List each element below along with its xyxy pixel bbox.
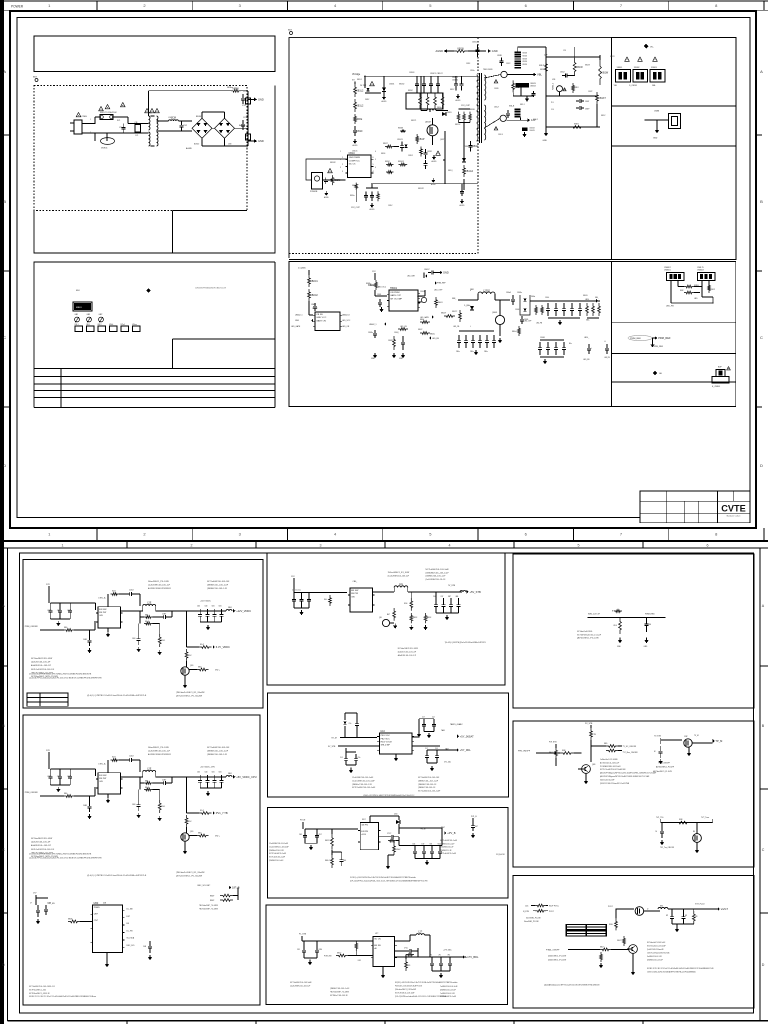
svg-text:PV1 STB: PV1 STB: [549, 742, 557, 744]
svg-text:TV_M: TV_M: [694, 735, 699, 737]
svg-text:NC/F-1aF/41C10L-10/L-1/F: NC/F-1aF/41C10L-10/L-1/F: [31, 669, 55, 671]
svg-text:(AD?dim/SEC1_/F1L-10/W: (AD?dim/SEC1_/F1L-10/W: [577, 637, 599, 640]
svg-text:D0?: D0?: [475, 826, 478, 828]
svg-text:(1a8C/10F-2/10am/4F: (1a8C/10F-2/10am/4F: [647, 949, 664, 951]
svg-text:UB002_1: UB002_1: [295, 315, 303, 317]
svg-text:xRFE: xRFE: [356, 118, 362, 121]
svg-text:KE1?: KE1?: [337, 953, 341, 955]
svg-text:AGND: AGND: [432, 160, 438, 163]
svg-text:L2E: L2E: [147, 768, 152, 771]
svg-text:3: 3: [342, 171, 343, 173]
svg-text:2: 2: [342, 164, 343, 166]
svg-text:KB0: KB0: [64, 793, 67, 795]
svg-text:KB1W: KB1W: [601, 72, 609, 75]
svg-text:KB1X: KB1X: [574, 87, 579, 89]
svg-text:CB01x: CB01x: [368, 332, 373, 334]
svg-text:PVCC: PVCC: [549, 911, 555, 913]
svg-text:2: 2: [340, 159, 341, 161]
svg-text:CB1E: CB1E: [472, 145, 479, 148]
svg-text:(1M/B0C/10L-10/L1F: (1M/B0C/10L-10/L1F: [647, 960, 663, 962]
svg-text:B0T: B0T: [33, 77, 38, 79]
svg-text:(7ML/dim/1a1SEC1_/F1_/10a/4W: (7ML/dim/1a1SEC1_/F1_/10a/4W: [176, 872, 205, 874]
svg-text:KB1Z: KB1Z: [450, 89, 454, 91]
svg-text:KB1W: KB1W: [576, 66, 584, 69]
svg-text:KB1C: KB1C: [408, 90, 414, 92]
svg-text:KB7: KB7: [145, 615, 148, 617]
svg-text:KB0_: KB0_: [595, 297, 599, 299]
svg-text:HD2 VOCE: HD2 VOCE: [381, 742, 393, 744]
svg-text:(7ML/dim/1a1SEC1_/F1_/10a/4W: (7ML/dim/1a1SEC1_/F1_/10a/4W: [176, 692, 205, 694]
svg-text:PSBD: PSBD: [94, 907, 100, 909]
svg-text:TV?_Tasa: TV?_Tasa: [701, 817, 709, 819]
svg-text:NC?dim/SEC1/F1L-1/4W: NC?dim/SEC1/F1L-1/4W: [31, 658, 52, 660]
svg-text:PPB_ON/OFF: PPB_ON/OFF: [518, 751, 531, 753]
svg-text:UD4: UD4: [394, 814, 397, 816]
svg-text:50hm/6SEC1_P1L-10/W: 50hm/6SEC1_P1L-10/W: [148, 747, 169, 749]
svg-text:150hm/6SEC1_/F1_10/W: 150hm/6SEC1_/F1_10/W: [388, 572, 410, 574]
svg-text:NC?B0a/C10L-10/L1F: NC?B0a/C10L-10/L1F: [330, 995, 349, 997]
svg-text:EN PB: EN PB: [361, 831, 368, 833]
svg-text:CB0C: CB0C: [311, 304, 317, 306]
svg-text:FB81: FB81: [470, 289, 474, 291]
svg-text:(1a4C/6SEC10L-10/L-1aF: (1a4C/6SEC10L-10/L-1aF: [148, 584, 171, 586]
svg-text:KD3: KD3: [112, 591, 116, 593]
svg-text:6: 6: [375, 151, 376, 153]
svg-text:B0?: B0?: [387, 614, 390, 616]
svg-text:1/4h7C1/LN4+6e/NC7/DG4h/AGFP/C: 1/4h7C1/LN4+6e/NC7/DG4h/AGFP/C7BE7/N-ant…: [647, 971, 696, 974]
svg-text:AC/F8FC/6SEC4T/4R/S/F1: AC/F8FC/6SEC4T/4R/S/F1: [148, 753, 171, 756]
svg-text:RB1T: RB1T: [383, 143, 389, 145]
svg-text:(1)dC/D/C10L-10/L-1/F: (1)dC/D/C10L-10/L-1/F: [31, 842, 51, 844]
svg-text:NC?1a6/4C10L-1a6F: NC?1a6/4C10L-1a6F: [269, 857, 285, 859]
svg-text:NC?1a4/44C1L-1a6F: NC?1a4/44C1L-1a6F: [440, 996, 456, 998]
svg-text:1N PN: 1N PN: [361, 825, 368, 827]
svg-text:DB1N: DB1N: [447, 112, 452, 114]
svg-text:KF1: KF1: [358, 960, 361, 962]
svg-text:CB12: CB12: [47, 776, 51, 778]
svg-text:XS802: XS802: [634, 67, 640, 69]
svg-text:KD3: KD3: [112, 757, 116, 759]
svg-text:(1M40/B0/C10L--10/L-1a1F: (1M40/B0/C10L--10/L-1a1F: [426, 572, 450, 574]
svg-text:CY02: CY02: [243, 117, 248, 119]
svg-text:M8: M8: [695, 916, 697, 918]
svg-text:B0x: B0x: [569, 343, 572, 345]
svg-text:CB10: CB10: [356, 130, 363, 133]
svg-text:KB12: KB12: [711, 289, 715, 291]
svg-text:QB1M: QB1M: [425, 122, 431, 124]
svg-text:2D0: 2D0: [197, 606, 200, 608]
svg-text:CB1K: CB1K: [497, 55, 503, 57]
svg-text:+12V_VDDC: +12V_VDDC: [200, 601, 212, 603]
svg-text:AGdF/D/L10L--10/L-1/P: AGdF/D/L10L--10/L-1/P: [31, 844, 52, 847]
svg-text:LED_CB: LED_CB: [400, 326, 407, 328]
svg-text:SW2_12V_S?: SW2_12V_S?: [588, 614, 600, 616]
svg-text:CB1U1: CB1U1: [352, 151, 358, 153]
svg-text:BD802: BD802: [194, 144, 199, 146]
svg-text:CB FB: CB FB: [316, 314, 323, 316]
svg-text:GN: GN: [99, 781, 103, 783]
svg-text:CB1U: CB1U: [349, 152, 356, 155]
svg-text:C1a4C/6SEC10L-10/L-1a6F: C1a4C/6SEC10L-10/L-1a6F: [352, 780, 375, 782]
svg-text:?B0?dim/NE?_?0-1/8W: ?B0?dim/NE?_?0-1/8W: [199, 908, 218, 910]
svg-text:(1a4C/6SEC10L-10/L1aF: (1a4C/6SEC10L-10/L1aF: [388, 575, 410, 577]
svg-text:3chm/NE1_P1-1/W: 3chm/NE1_P1-1/W: [524, 921, 539, 923]
svg-text:VD LN: VD LN: [374, 939, 381, 941]
svg-text:(2K7ahm/1SEC1_/F1_/10a/4W: (2K7ahm/1SEC1_/F1_/10a/4W: [176, 696, 202, 698]
svg-text:C1x C1x C1x: C1x C1x C1x: [292, 590, 301, 592]
svg-text:C0D2: C0D2: [129, 590, 134, 592]
svg-text:PV1_B: PV1_B: [471, 816, 477, 818]
svg-text:(1a4C/6SEC10L-10/L-1aF: (1a4C/6SEC10L-10/L-1aF: [148, 750, 171, 752]
svg-text:NC/BC.2C/1C.BC.2C.F1a/C1.1a8%/: NC/BC.2C/1C.BC.2C.F1a/C1.1a8%/4aB/L2a8%/…: [647, 968, 714, 970]
svg-text:5: 5: [375, 159, 376, 161]
svg-text:L2E: L2E: [147, 602, 152, 605]
svg-text:L2002: L2002: [483, 290, 490, 293]
svg-text:(1a4C/6SEC10L-10/L1aF: (1a4C/6SEC10L-10/L1aF: [290, 985, 311, 987]
svg-text:d1 B: d1 B: [361, 834, 366, 836]
svg-text:A: A: [760, 69, 763, 74]
svg-text:1BBCB: 1BBCB: [530, 86, 536, 88]
svg-text:DBC_SCL: DBC_SCL: [127, 945, 135, 947]
svg-text:CL1: CL1: [340, 757, 343, 759]
svg-text:NC/F-1aF/41C10L-10/L-1/F: NC/F-1aF/41C10L-10/L-1/F: [31, 849, 55, 851]
svg-text:C80: C80: [648, 624, 651, 626]
svg-text:P 6: P 6: [551, 102, 554, 104]
svg-text:CB1: CB1: [219, 606, 222, 608]
svg-text:NC?10F4/D/a6C/10L-1/L1a1F: NC?10F4/D/a6C/10L-1/L1a1F: [577, 634, 602, 636]
svg-text:+5V_VDDC_CPU: +5V_VDDC_CPU: [236, 775, 257, 779]
svg-text:SY_STB: SY_STB: [328, 746, 336, 748]
svg-text:C1a4C/6SEC1L-10/L1a6F: C1a4C/6SEC1L-10/L1a6F: [269, 846, 289, 848]
svg-text:12V: 12V: [46, 750, 50, 752]
svg-text:DC_EN: DC_EN: [49, 903, 56, 905]
svg-text:LED_OVP: LED_OVP: [434, 290, 443, 292]
svg-text:LCM1: LCM1: [168, 117, 173, 119]
svg-text:GLI: GLI: [659, 373, 663, 375]
svg-text:FB01: FB01: [228, 607, 232, 609]
svg-text:XS801: XS801: [617, 67, 623, 69]
svg-text:KB1G4: KB1G4: [465, 170, 473, 173]
svg-text:KB?: KB?: [448, 596, 451, 598]
svg-text:AC?dim/a6C1L-10/L1a1F: AC?dim/a6C1L-10/L1a1F: [600, 761, 619, 764]
svg-text:UB0: UB0: [94, 902, 99, 905]
svg-text:CB0x: CB0x: [484, 351, 488, 353]
svg-text:?B0?dim/NE?_?0-1/8W: ?B0?dim/NE?_?0-1/8W: [330, 991, 349, 993]
svg-text:KB1-B: KB1-B: [509, 106, 515, 108]
svg-text:CN8003: CN8003: [697, 270, 704, 272]
svg-text:GND: GND: [258, 97, 264, 101]
svg-text:Mandarin Culture: Mandarin Culture: [727, 515, 741, 518]
svg-text:(1M/B0/C10L-10/L-1F: (1M/B0/C10L-10/L-1F: [418, 787, 436, 789]
svg-text:KB1F: KB1F: [413, 617, 417, 619]
svg-text:GATE ON: GATE ON: [316, 319, 326, 322]
svg-text:COMPVCC: COMPVCC: [349, 160, 361, 162]
svg-text:YBL: YBL: [614, 85, 618, 87]
svg-text:1: 1: [90, 119, 91, 121]
svg-text:NC?1aF/44C1L-10/L1a6F: NC?1aF/44C1L-10/L1a6F: [395, 993, 414, 995]
svg-text:ABO_VCC: ABO_VCC: [378, 286, 387, 289]
svg-text:KB1X7: KB1X7: [598, 97, 606, 100]
svg-text:+5Y_0DL: +5Y_0DL: [460, 748, 471, 752]
svg-text:RV1: RV1: [117, 120, 120, 122]
svg-text:CB0M: CB0M: [540, 337, 545, 339]
svg-text:Vbridge: Vbridge: [352, 73, 361, 76]
svg-text:CB012: CB012: [388, 340, 393, 342]
svg-text:D: D: [762, 963, 765, 967]
svg-text:KF1: KF1: [408, 965, 411, 967]
svg-text:QB001: QB001: [417, 296, 422, 298]
svg-text:KE1R: KE1R: [325, 840, 330, 842]
svg-text:KE6-2: KE6-2: [325, 860, 330, 862]
svg-text:5: 5: [578, 543, 580, 547]
svg-text:CB1x: CB1x: [470, 70, 475, 72]
svg-text:NC CX: NC CX: [349, 164, 356, 166]
svg-text:DB2-2: DB2-2: [533, 119, 538, 121]
svg-text:LED_FB: LED_FB: [666, 306, 674, 308]
svg-text:LED_CHE: LED_CHE: [407, 276, 416, 278]
svg-text:BBC_SCL BE?: BBC_SCL BE?: [198, 885, 211, 887]
svg-text:5: 5: [373, 164, 374, 166]
svg-text:GND: GND: [295, 320, 300, 322]
svg-text:TV1_Tax_ON/OFF: TV1_Tax_ON/OFF: [660, 847, 674, 849]
svg-text:PB1 VDC: PB1 VDC: [381, 735, 391, 737]
svg-text:QD1: QD1: [190, 831, 194, 833]
svg-text:GND: GND: [443, 271, 449, 275]
svg-text:KDL1: KDL1: [161, 640, 165, 642]
svg-text:D_CB1M: D_CB1M: [629, 85, 637, 87]
svg-text:C0Y: C0Y: [433, 596, 436, 598]
svg-text:AGND: AGND: [436, 49, 444, 53]
svg-text:7V_STB: 7V_STB: [448, 585, 456, 587]
svg-text:PWM_RED: PWM_RED: [645, 614, 655, 616]
svg-text:FB PW: FB PW: [99, 612, 107, 614]
svg-text:TAFF5_05ABC: TAFF5_05ABC: [450, 723, 463, 726]
svg-text:PWM_REF: PWM_REF: [630, 338, 642, 340]
svg-text:CB1B3: CB1B3: [409, 72, 414, 74]
svg-text:(1B1/1C1/10F-2/10am/4F/1.1a4C/: (1B1/1C1/10F-2/10am/4F/1.1a4C/7MB: [600, 783, 630, 785]
svg-text:12V_OVP: 12V_OVP: [461, 105, 471, 107]
svg-text:CB1D2: CB1D2: [452, 80, 458, 82]
svg-text:1/4h/7C1/LN4+6e/NC7/D/G4h: 1/4h/7C1/LN4+6e/NC7/D/G4h: [647, 953, 670, 955]
svg-text:CT0?: CT0?: [387, 833, 391, 835]
svg-text:KB1O1: KB1O1: [398, 161, 404, 163]
svg-text:TA0?: TA0?: [441, 826, 445, 829]
svg-text:3dim/1a6C/10-10/F: 3dim/1a6C/10-10/F: [600, 779, 614, 781]
svg-text:AGND: AGND: [370, 208, 376, 211]
svg-text:AGND: AGND: [324, 196, 330, 199]
svg-text:DB1x: DB1x: [437, 107, 442, 109]
svg-text:C?: C?: [30, 903, 32, 905]
svg-text:1B0CB: 1B0CB: [530, 128, 535, 130]
svg-text:QB1: QB1: [592, 764, 595, 766]
svg-text:5Y1_0DL: 5Y1_0DL: [444, 762, 451, 764]
svg-text:KB0C2: KB0C2: [310, 294, 318, 297]
svg-text:(1M/B0a/C10L-10/L-1/1F: (1M/B0a/C10L-10/L-1/1F: [352, 784, 373, 786]
svg-text:KB1x: KB1x: [350, 195, 355, 197]
svg-text:C0B7: C0B7: [162, 614, 166, 616]
svg-text:GBL: GBL: [456, 596, 459, 598]
svg-text:MLI: MLI: [76, 290, 80, 292]
svg-text:XX(4)4V/4F: XX(4)4V/4F: [496, 854, 505, 856]
svg-text:M72: M72: [660, 906, 663, 908]
svg-text:KB2-1: KB2-1: [520, 104, 525, 106]
svg-text:GND VCC: GND VCC: [316, 317, 327, 319]
svg-text:(AD1/10F?/4Bguma/NP?4/L10a8F/C: (AD1/10F?/4Bguma/NP?4/L10a8F/C10F8/L10/B…: [600, 775, 649, 778]
svg-text:GB3: GB3: [87, 314, 91, 316]
svg-text:AGND: AGND: [382, 100, 388, 103]
svg-text:3: 3: [340, 167, 341, 169]
svg-text:CB0x5: CB0x5: [506, 292, 511, 294]
svg-text:+PV_B: +PV_B: [447, 831, 455, 835]
svg-text:(1)dC/D/C10L-10/L-1/F: (1)dC/D/C10L-10/L-1/F: [31, 662, 51, 664]
svg-text:(1)dC/D/C10L-10/L-1/F: (1)dC/D/C10L-10/L-1/F: [398, 651, 417, 653]
svg-text:CB1B1: CB1B1: [389, 84, 394, 86]
svg-text:VID +: VID +: [215, 670, 221, 672]
svg-text:NC?1a4/44C1L-1a6F: NC?1a4/44C1L-1a6F: [440, 853, 456, 855]
svg-text:NR8K: NR8K: [233, 87, 240, 90]
svg-text:KB1N: KB1N: [574, 124, 579, 126]
svg-text:+12V_VDDC: +12V_VDDC: [236, 609, 251, 613]
svg-text:GB1: GB1: [75, 314, 79, 316]
svg-text:1a8hm/4m1-/C2-10/NB: 1a8hm/4m1-/C2-10/NB: [600, 759, 618, 761]
svg-text:?B0?dim/NE?_?0-1/8W: ?B0?dim/NE?_?0-1/8W: [199, 905, 218, 907]
svg-text:TB001: TB001: [390, 287, 398, 290]
svg-text:FB01: FB01: [228, 773, 232, 775]
svg-text:C0B9: C0B9: [83, 805, 87, 807]
svg-text:CB0L: CB0L: [545, 297, 549, 299]
svg-text:PCB01B: PCB01B: [310, 191, 318, 193]
svg-text:(1M/B0C/10L-10/L-1-1F: (1M/B0C/10L-10/L-1-1F: [426, 576, 447, 578]
svg-text:CB1: CB1: [212, 606, 215, 608]
svg-text:(4) 4(+1) Q.7BRTB.D.5/1a6%/5 0: (4) 4(+1) Q.7BRTB.D.5/1a6%/5 0am/41D/a4-…: [87, 875, 147, 877]
svg-text:50hm/6SEC1_P1L-10/W: 50hm/6SEC1_P1L-10/W: [148, 581, 169, 583]
svg-text:M7: M7: [666, 915, 668, 917]
svg-text:GND7GBW: GND7GBW: [349, 157, 361, 159]
svg-text:(1M/B0/C10L--10/L-1a1F: (1M/B0/C10L--10/L-1a1F: [207, 750, 229, 752]
svg-text:2: 2: [191, 543, 193, 547]
svg-text:NC?F?a6/44C10L-10/L-1a6F: NC?F?a6/44C10L-10/L-1a6F: [352, 787, 376, 789]
svg-text:D: D: [2, 963, 5, 967]
svg-text:KB0x: KB0x: [420, 319, 424, 321]
svg-text:GN: GN: [351, 596, 355, 598]
svg-text:NC?1/C0-a6F/P10L1/C10a8F/10F: NC?1/C0-a6F/P10L1/C10a8F/10F: [600, 769, 626, 771]
svg-text:L: L: [470, 326, 471, 328]
svg-text:KB0-0: KB0-0: [512, 331, 517, 333]
svg-text:KB1L2: KB1L2: [356, 90, 364, 93]
svg-text:KB1J1: KB1J1: [539, 65, 544, 67]
svg-text:NC?dim/1a6L1/F0L: NC?dim/1a6L1/F0L: [577, 631, 593, 633]
svg-text:AGdF/D/L10L-10/L-1/P: AGdF/D/L10L-10/L-1/P: [398, 654, 417, 657]
svg-text:NC?1a6/44C10L-10/L-16F: NC?1a6/44C10L-10/L-16F: [207, 581, 230, 583]
svg-text:DC_DC-L1_4/YFDE/7hm-LL1/P1/70/: DC_DC-L1_4/YFDE/7hm-LL1/P1/70/NBu-78/4T/…: [29, 674, 92, 676]
svg-text:(1/F+1)/10/P/Free-Industrial/F: (1/F+1)/10/P/Free-Industrial/F/a8L-/1/C/…: [350, 880, 428, 883]
svg-text:EN SW: EN SW: [351, 590, 359, 592]
svg-text:KB0_: KB0_: [586, 320, 590, 322]
svg-text:NC?1a6/44C10L-10/L-16F/L-1/F: NC?1a6/44C10L-10/L-16F/L-1/F: [29, 986, 56, 988]
svg-text:4: 4: [375, 167, 376, 169]
svg-text:MB01: MB01: [76, 307, 82, 309]
svg-text:+1?V_BDL: +1?V_BDL: [466, 955, 479, 959]
svg-text:CB1x: CB1x: [472, 42, 477, 44]
svg-text:CX1: CX1: [135, 135, 138, 137]
svg-text:3: 3: [90, 132, 91, 134]
svg-text:KB1D2: KB1D2: [455, 124, 460, 126]
svg-text:AB5F: AB5F: [427, 616, 431, 619]
svg-text:SD?: SD?: [362, 819, 366, 821]
svg-text:C: C: [760, 335, 763, 340]
svg-text:(1M/B0/C10L-10/L-1-1F: (1M/B0/C10L-10/L-1-1F: [207, 754, 228, 756]
svg-text:GND: GND: [492, 49, 498, 53]
svg-text:(4)(1)/AV(1)Dynamic/NP?4/L1a4%: (4)(1)/AV(1)Dynamic/NP?4/L1a4%/10.5/8.5/…: [544, 984, 600, 987]
svg-text:FB PW: FB PW: [99, 778, 107, 780]
svg-text:FY01: FY01: [242, 105, 246, 107]
svg-text:PV_M: PV_M: [300, 820, 306, 822]
svg-text:CN?: CN?: [94, 920, 99, 922]
svg-text:CB07: CB07: [585, 101, 589, 103]
svg-text:AGdF/D/L10L--10/L-1/P: AGdF/D/L10L--10/L-1/P: [31, 664, 52, 667]
svg-text:CTRL_A: CTRL_A: [98, 597, 106, 600]
svg-text:T48: T48: [430, 843, 433, 845]
svg-text:VGT_Panel: VGT_Panel: [695, 904, 705, 906]
svg-text:UB002_1: UB002_1: [369, 324, 377, 326]
svg-text:C0B: C0B: [143, 946, 146, 948]
svg-text:C: C: [2, 848, 5, 852]
svg-text:NC?F4ax/SEC1_41D: NC?F4ax/SEC1_41D: [29, 989, 47, 991]
svg-text:D_QB05: D_QB05: [298, 268, 307, 270]
svg-text:LED_CB.: LED_CB.: [453, 326, 460, 328]
svg-text:ON PWM: ON PWM: [390, 292, 399, 294]
svg-text:4: 4: [373, 171, 374, 173]
svg-text:CVB-SSOPTB3050/S1/HO.B/LE1.10/: CVB-SSOPTB3050/S1/HO.B/LE1.10/9: [195, 288, 226, 290]
svg-text:SY_M: SY_M: [331, 738, 337, 740]
svg-text:NC?1a6/44C10L-10/L1a6F: NC?1a6/44C10L-10/L1a6F: [290, 982, 312, 984]
svg-text:6: 6: [373, 157, 374, 159]
svg-text:KB1P: KB1P: [418, 138, 425, 141]
svg-text:3F0: 3F0: [448, 955, 451, 957]
svg-text:LED_VCC: LED_VCC: [342, 320, 351, 322]
svg-text:U10: U10: [380, 730, 385, 733]
svg-text:XS803: XS803: [651, 67, 657, 69]
svg-text:CB2-9: CB2-9: [498, 134, 503, 136]
svg-text:E_CN801: E_CN801: [712, 386, 720, 388]
svg-text:KB-8: KB-8: [145, 787, 149, 789]
svg-text:KNLL: KNLL: [609, 924, 613, 926]
svg-text:DC_FB: DC_FB: [127, 930, 134, 932]
svg-text:NC70C/a6C1L-10/L1a6F: NC70C/a6C1L-10/L1a6F: [647, 946, 666, 948]
svg-text:(1M/B0/C1L-1F: (1M/B0/C1L-1F: [440, 850, 452, 852]
svg-text:CB0C2: CB0C2: [312, 308, 318, 310]
svg-text:D19: D19: [422, 843, 425, 845]
svg-text:KB2R: KB2R: [610, 56, 615, 58]
svg-text:+KBu2: +KBu2: [396, 849, 401, 851]
svg-text:(1M/B0a/C10L-1/1F: (1M/B0a/C10L-1/1F: [269, 850, 284, 852]
svg-text:PV_STB: PV_STB: [585, 723, 593, 725]
svg-text:CF1: CF1: [297, 949, 300, 951]
svg-text:RB0?: RB0?: [210, 900, 214, 902]
svg-text:PC/4PA/4C/N8L-10/C1/a6V: PC/4PA/4C/N8L-10/C1/a6V: [600, 765, 621, 768]
svg-text:KBL?: KBL?: [600, 946, 604, 948]
svg-text:SHLD BP: SHLD BP: [381, 745, 391, 747]
svg-text:CB12: CB12: [47, 610, 51, 612]
svg-text:PFB_REF: PFB_REF: [654, 346, 664, 348]
svg-text:(1M/B0/C10L-10/L-1-1F: (1M/B0/C10L-10/L-1-1F: [207, 588, 228, 590]
svg-text:F0hm/4m+1/4C10/2D/C8a4F/7C1/B: F0hm/4m+1/4C10/2D/C8a4F/7C1/B: [395, 986, 423, 988]
svg-text:FOR_EN: FOR_EN: [324, 956, 332, 958]
svg-text:3a4/B0/C10L-1/L1F: 3a4/B0/C10L-1/L1F: [647, 956, 662, 958]
svg-text:KD0: KD0: [614, 625, 617, 627]
svg-text:KB1W2: KB1W2: [418, 188, 424, 190]
svg-text:C0B9: C0B9: [83, 639, 87, 641]
